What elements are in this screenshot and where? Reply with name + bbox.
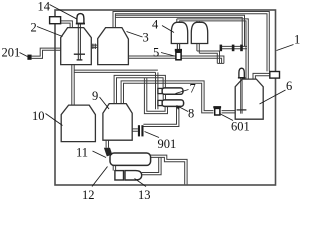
svg-text:10: 10 xyxy=(32,109,45,123)
svg-text:12: 12 xyxy=(82,188,95,200)
svg-text:4: 4 xyxy=(152,18,159,32)
svg-text:2: 2 xyxy=(31,21,37,35)
svg-text:601: 601 xyxy=(231,120,250,134)
svg-text:1: 1 xyxy=(294,33,300,47)
svg-text:201: 201 xyxy=(2,46,21,60)
svg-text:7: 7 xyxy=(190,82,196,96)
svg-text:8: 8 xyxy=(188,107,194,121)
svg-text:11: 11 xyxy=(76,146,88,160)
svg-text:9: 9 xyxy=(92,89,98,103)
svg-text:13: 13 xyxy=(138,188,151,200)
svg-text:5: 5 xyxy=(153,46,159,60)
svg-text:6: 6 xyxy=(286,79,292,93)
svg-text:3: 3 xyxy=(143,31,149,45)
svg-text:901: 901 xyxy=(158,137,177,151)
svg-text:14: 14 xyxy=(38,0,51,14)
